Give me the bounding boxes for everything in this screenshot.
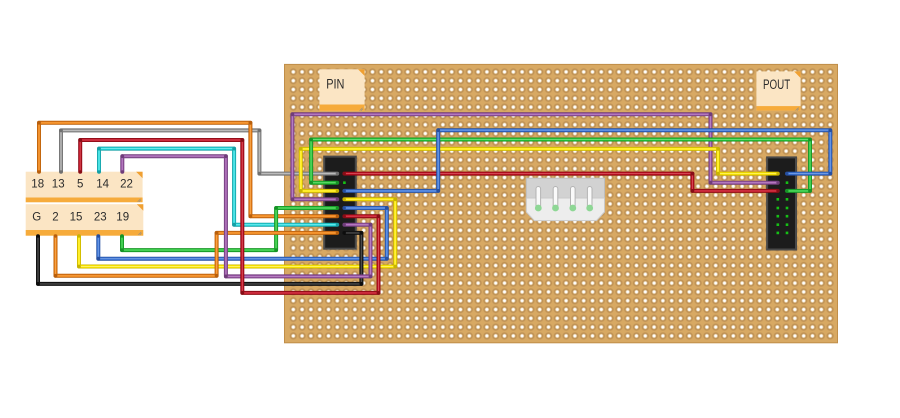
svg-text:5: 5 bbox=[77, 179, 83, 191]
wire purple PIN-POUT bbox=[291, 112, 780, 201]
svg-text:15: 15 bbox=[70, 212, 83, 224]
wire 18 orange bbox=[37, 121, 339, 218]
label note 18 13 5 14 22 bbox=[26, 172, 143, 203]
svg-text:PIN: PIN bbox=[326, 76, 344, 92]
connector J2 POUT header bbox=[767, 157, 796, 249]
svg-text:14: 14 bbox=[96, 179, 109, 191]
wire red PIN-POUT bbox=[343, 172, 779, 193]
wire yellow PIN-POUT bbox=[299, 147, 779, 193]
svg-text:2: 2 bbox=[52, 212, 58, 224]
wire blue PIN-POUT bbox=[343, 128, 832, 193]
label POUT sticky note bbox=[756, 71, 800, 110]
wire 23 blue bbox=[96, 206, 388, 261]
svg-text:18: 18 bbox=[31, 179, 44, 191]
label PIN sticky note bbox=[319, 69, 364, 111]
wire 5 red bbox=[78, 138, 380, 295]
connector J1 PIN header bbox=[324, 157, 356, 249]
wire 19 green bbox=[120, 206, 339, 252]
wire 15 yellow bbox=[77, 197, 397, 268]
connector J3 4-pin socket bbox=[526, 178, 604, 220]
svg-text:13: 13 bbox=[52, 179, 65, 191]
svg-text:19: 19 bbox=[116, 212, 129, 224]
wire G black bbox=[36, 231, 363, 286]
svg-text:22: 22 bbox=[120, 179, 133, 191]
label note G 2 15 23 19 bbox=[26, 204, 144, 236]
wire 22 purple bbox=[120, 154, 372, 278]
sticky resize marks bbox=[138, 108, 799, 235]
wire 13 gray bbox=[59, 129, 339, 176]
svg-text:G: G bbox=[32, 212, 41, 224]
svg-text:23: 23 bbox=[94, 212, 107, 224]
wire 14 cyan bbox=[97, 147, 339, 227]
wire green PIN-POUT bbox=[309, 138, 812, 193]
svg-text:POUT: POUT bbox=[763, 77, 790, 93]
perfboard bbox=[285, 64, 838, 342]
wire 2 orange bbox=[54, 231, 339, 278]
